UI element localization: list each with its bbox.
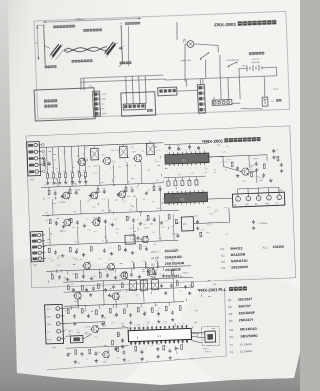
main IC1 MC145163	[128, 328, 191, 341]
svg-text:1: 1	[237, 199, 238, 201]
svg-text:BA4220B: BA4220B	[231, 252, 246, 257]
to receiver label right	[120, 62, 123, 65]
svg-text:0.1: 0.1	[86, 358, 88, 360]
svg-text:0.01: 0.01	[93, 276, 97, 278]
svg-text:2: 2	[57, 316, 58, 318]
svg-text:0.01: 0.01	[191, 173, 194, 175]
svg-text:10uF: 10uF	[179, 257, 183, 259]
antenna input trap	[43, 159, 44, 166]
svg-text:470: 470	[130, 228, 133, 230]
svg-text:L3: L3	[155, 260, 157, 262]
middle section border box	[26, 126, 296, 288]
svg-text:0.01: 0.01	[111, 150, 114, 152]
svg-text:0.022: 0.022	[207, 224, 211, 226]
label core coil left	[53, 25, 56, 28]
svg-text:L3: L3	[159, 273, 161, 275]
svg-text:0.047: 0.047	[100, 182, 104, 184]
svg-text:14: 14	[178, 323, 180, 325]
svg-text:0.047: 0.047	[161, 226, 165, 228]
wires into PLL box	[80, 78, 83, 90]
label matching note center	[83, 29, 86, 32]
svg-text:2SC2347: 2SC2347	[238, 297, 252, 302]
upper passive row	[67, 285, 69, 290]
squelch transistor Q4	[242, 168, 249, 175]
wires right	[209, 156, 223, 167]
svg-text:560: 560	[49, 178, 52, 180]
svg-text:L1: L1	[131, 261, 133, 263]
svg-text:0.047: 0.047	[93, 172, 97, 174]
svg-text:560: 560	[163, 202, 166, 204]
extra wires right cluster	[238, 73, 241, 99]
svg-text:100: 100	[155, 305, 158, 307]
input connector CN1 left top	[27, 141, 41, 175]
top section border box	[34, 11, 290, 119]
svg-text:0.022: 0.022	[72, 273, 76, 275]
svg-text:0.01: 0.01	[102, 188, 105, 190]
svg-text:0.1: 0.1	[99, 178, 101, 180]
svg-text:10: 10	[161, 323, 163, 325]
svg-text:100: 100	[178, 174, 181, 176]
svg-text:1uF: 1uF	[43, 154, 46, 156]
svg-text:0.1: 0.1	[80, 259, 82, 261]
VCO transistors above	[74, 292, 81, 299]
svg-text:100: 100	[45, 220, 48, 222]
RX PCB board box	[121, 92, 156, 117]
svg-text:Q4: Q4	[229, 319, 233, 323]
svg-text:12V DC: 12V DC	[252, 59, 260, 61]
svg-text:330: 330	[142, 198, 145, 200]
svg-text:L2: L2	[147, 274, 149, 276]
svg-text:470: 470	[226, 146, 229, 148]
svg-text:47uF: 47uF	[111, 322, 115, 324]
svg-text:470: 470	[168, 257, 171, 259]
second feeder vertical	[127, 26, 130, 66]
lamp wires	[185, 43, 187, 45]
svg-text:GND: GND	[47, 324, 52, 326]
svg-text:0.022: 0.022	[221, 161, 225, 163]
VCO bottom dense row	[51, 275, 53, 280]
svg-text:0.01uF: 0.01uF	[174, 359, 181, 361]
svg-text:0.022: 0.022	[157, 208, 161, 210]
svg-text:0.01: 0.01	[93, 231, 96, 233]
svg-text:680: 680	[54, 197, 57, 199]
svg-text:0.022: 0.022	[201, 229, 205, 231]
PLL connector CN1	[45, 304, 64, 344]
svg-text:0.01: 0.01	[87, 201, 90, 203]
svg-text:470: 470	[113, 177, 116, 179]
svg-text:IC2: IC2	[229, 335, 234, 339]
svg-text:1uF: 1uF	[47, 198, 50, 200]
svg-text:0.047: 0.047	[255, 176, 259, 178]
svg-text:0.022: 0.022	[242, 180, 246, 182]
svg-text:FRX-2001: FRX-2001	[214, 22, 236, 29]
svg-text:0.1: 0.1	[126, 304, 128, 306]
svg-text:330: 330	[204, 172, 207, 174]
svg-text:470: 470	[224, 207, 227, 209]
svg-text:47uF: 47uF	[46, 242, 50, 244]
svg-text:0.047: 0.047	[88, 198, 92, 200]
svg-text:1uF: 1uF	[54, 221, 57, 223]
svg-text:1: 1	[57, 308, 58, 310]
svg-text:330: 330	[105, 353, 108, 355]
svg-text:0.01: 0.01	[63, 151, 66, 153]
row4 components (audio)	[48, 248, 50, 253]
svg-text:100: 100	[117, 358, 120, 360]
svg-text:0.01: 0.01	[53, 190, 56, 192]
svg-text:2SK192AGR: 2SK192AGR	[165, 261, 185, 266]
svg-text:10uF: 10uF	[92, 206, 96, 208]
svg-text:15: 15	[183, 323, 185, 325]
below-IC passives	[156, 347, 159, 351]
svg-text:+ 0.0068uF: + 0.0068uF	[258, 223, 269, 225]
crystal X1	[70, 336, 83, 343]
svg-text:220: 220	[116, 229, 119, 231]
svg-text:0.01: 0.01	[185, 159, 188, 161]
svg-text:SB1250HG: SB1250HG	[240, 334, 258, 339]
right antenna post	[121, 25, 122, 63]
svg-text:0.01: 0.01	[64, 310, 67, 312]
0.0068uF cap note	[252, 220, 255, 224]
svg-text:0.01: 0.01	[88, 230, 91, 232]
svg-text:47uF: 47uF	[70, 331, 74, 333]
svg-text:GND: GND	[102, 113, 107, 115]
svg-text:0.022: 0.022	[113, 218, 117, 220]
caps above IC1	[168, 146, 171, 150]
svg-text:Q2: Q2	[228, 305, 232, 309]
svg-text:100: 100	[225, 170, 228, 172]
svg-text:10uF: 10uF	[110, 167, 114, 169]
svg-text:470: 470	[156, 180, 159, 182]
detector box + transistor above parts list	[125, 235, 135, 244]
svg-text:1000P: 1000P	[93, 166, 98, 168]
svg-text:13: 13	[174, 323, 176, 325]
svg-text:1uF: 1uF	[51, 260, 54, 262]
svg-text:Q3: Q3	[228, 312, 232, 316]
svg-text:1uF: 1uF	[214, 169, 217, 171]
channel switch	[205, 331, 216, 342]
top resistor row with drops	[46, 147, 47, 173]
CN2 output connector	[232, 192, 284, 207]
svg-text:0.1: 0.1	[137, 219, 139, 221]
circled pin digits next to CN1	[42, 144, 45, 147]
svg-text:1S2208: 1S2208	[272, 245, 284, 249]
left antenna coil	[50, 44, 61, 57]
svg-text:10uF: 10uF	[93, 217, 97, 219]
svg-text:560: 560	[110, 269, 113, 271]
svg-text:MC145163: MC145163	[240, 327, 257, 332]
svg-text:10uF: 10uF	[208, 222, 212, 224]
mid band components row2	[48, 190, 50, 195]
svg-text:5: 5	[278, 197, 279, 199]
svg-text:1uF: 1uF	[158, 186, 161, 188]
svg-text:100: 100	[91, 195, 94, 197]
svg-text:Q1: Q1	[228, 298, 232, 302]
svg-text:0.1: 0.1	[130, 204, 132, 206]
battery cells	[243, 65, 266, 72]
svg-text:0.1: 0.1	[159, 251, 161, 253]
battery label 単2電池×8	[249, 52, 252, 55]
VCO coil cans	[129, 280, 136, 290]
svg-text:Q1,5,7: Q1,5,7	[150, 250, 158, 253]
svg-text:GND: GND	[265, 203, 270, 205]
switch drop wire	[205, 59, 206, 78]
PLL section border	[44, 290, 228, 370]
lamp	[187, 40, 194, 47]
svg-text:330: 330	[147, 190, 150, 192]
svg-text:0.1: 0.1	[179, 291, 181, 293]
wires right area	[199, 79, 201, 85]
svg-text:0.1: 0.1	[276, 149, 279, 151]
svg-text:0.1: 0.1	[102, 328, 104, 330]
svg-text:0.047: 0.047	[143, 246, 147, 248]
svg-text:100P: 100P	[217, 145, 221, 147]
svg-text:10.24MHz: 10.24MHz	[240, 349, 253, 353]
svg-text:BA4112: BA4112	[230, 246, 242, 250]
svg-text:*FRX-2001: *FRX-2001	[202, 138, 224, 144]
svg-text:0.01: 0.01	[137, 324, 141, 326]
svg-text:43.10MHz: 43.10MHz	[240, 342, 253, 346]
svg-text:1.5M: 1.5M	[245, 204, 250, 206]
svg-text:100: 100	[153, 244, 156, 246]
svg-text:560: 560	[74, 241, 77, 243]
Q3	[92, 326, 99, 333]
svg-text:3SK73Y: 3SK73Y	[238, 304, 252, 309]
svg-text:2SC2803F: 2SC2803F	[238, 311, 254, 316]
svg-text:0.022: 0.022	[251, 165, 255, 167]
svg-text:100P: 100P	[73, 258, 77, 260]
svg-text:100: 100	[149, 309, 152, 311]
svg-text:680: 680	[152, 201, 155, 203]
connector row D	[212, 99, 232, 105]
svg-text:5: 5	[58, 339, 59, 341]
svg-text:+12V: +12V	[101, 94, 106, 96]
svg-text:100: 100	[168, 265, 171, 267]
to receiver label left	[45, 66, 48, 69]
svg-text:0.1: 0.1	[106, 263, 108, 265]
svg-text:3: 3	[258, 198, 259, 200]
soft photo shading	[0, 255, 150, 391]
svg-text:0.022: 0.022	[209, 213, 213, 215]
lamp switch	[200, 53, 208, 58]
micro tick texture	[97, 203, 99, 205]
svg-text:0.01: 0.01	[91, 287, 94, 289]
svg-text:0.1: 0.1	[226, 162, 228, 164]
svg-text:0.1: 0.1	[107, 349, 109, 351]
svg-text:LAMP SW: LAMP SW	[181, 59, 192, 62]
svg-text:100P: 100P	[127, 196, 131, 198]
svg-text:560: 560	[147, 170, 150, 172]
IC2 BA4220 DIP	[164, 192, 207, 203]
svg-text:4.5-4 x: 4.5-4 x	[203, 348, 209, 350]
dimension arrow 50mm	[37, 26, 38, 60]
svg-text:100: 100	[250, 169, 253, 171]
svg-text:0.01uF: 0.01uF	[85, 326, 92, 328]
svg-text:0.01: 0.01	[215, 210, 218, 212]
svg-text:11: 11	[165, 323, 167, 325]
second RX connector row	[158, 87, 177, 96]
svg-text:100: 100	[76, 329, 79, 331]
svg-text:0.01: 0.01	[72, 227, 75, 229]
svg-text:100: 100	[60, 230, 63, 232]
left-of-IC column	[117, 332, 119, 337]
mid passive rows	[67, 309, 69, 314]
svg-text:100: 100	[115, 315, 118, 317]
svg-text:SB1250HG: SB1250HG	[231, 265, 248, 270]
svg-text:3: 3	[57, 324, 58, 326]
svg-text:4: 4	[58, 331, 59, 333]
IF transformer cans	[91, 148, 99, 160]
svg-text:2SC2803F: 2SC2803F	[165, 268, 181, 273]
svg-text:470: 470	[117, 196, 120, 198]
IC3 NJM4151	[181, 217, 194, 231]
svg-text:100uF: 100uF	[253, 158, 259, 160]
svg-text:12: 12	[169, 323, 171, 325]
svg-text:0.01: 0.01	[63, 202, 66, 204]
RX connector row	[123, 103, 146, 110]
svg-text:IC1: IC1	[229, 328, 234, 332]
svg-text:L2: L2	[143, 261, 145, 263]
svg-text:0.022: 0.022	[115, 150, 119, 152]
transistors row3	[64, 219, 71, 226]
power switch	[228, 62, 236, 66]
svg-text:0.022: 0.022	[259, 177, 263, 179]
vertical connector column C	[197, 85, 205, 114]
svg-text:GND: GND	[102, 99, 107, 101]
svg-text:0.100K: 0.100K	[172, 233, 179, 235]
svg-text:3 4 - 8: 3 4 - 8	[205, 351, 210, 353]
svg-text:Q4,9: Q4,9	[151, 269, 157, 272]
svg-text:470: 470	[136, 294, 139, 296]
svg-text:100: 100	[71, 283, 74, 285]
svg-text:330: 330	[100, 283, 103, 285]
svg-text:470: 470	[80, 337, 83, 339]
svg-text:0.1: 0.1	[105, 360, 107, 362]
capacitor at right coil	[118, 47, 122, 50]
svg-text:470: 470	[109, 223, 112, 225]
paper bottom edge shade	[0, 352, 300, 391]
svg-text:12V(-): 12V(-)	[273, 89, 279, 91]
svg-text:100: 100	[129, 209, 132, 211]
svg-text:NJM4151D: NJM4151D	[231, 259, 248, 264]
left antenna post	[44, 25, 46, 64]
antenna feed drop wire	[176, 22, 177, 40]
svg-text:1uF: 1uF	[143, 224, 146, 226]
svg-text:1000P: 1000P	[52, 203, 57, 205]
svg-text:47uF: 47uF	[86, 291, 90, 293]
feeder line label	[72, 60, 75, 63]
vertical inter-stage wires	[57, 178, 59, 187]
svg-text:0.022: 0.022	[178, 148, 182, 150]
svg-text:0.01: 0.01	[157, 150, 160, 152]
row3 components	[49, 219, 51, 224]
RF transistors Q1 Q2 Q3	[78, 158, 85, 165]
svg-text:L1: L1	[123, 275, 125, 277]
IC1 BA4112 DIP	[165, 153, 209, 164]
wires into RX box	[126, 77, 127, 104]
svg-text:100: 100	[98, 352, 101, 354]
right antenna coil	[104, 42, 115, 55]
DC jack	[262, 97, 268, 106]
wires	[62, 299, 78, 308]
svg-text:2: 2	[248, 198, 249, 200]
PLL connector column CN	[93, 91, 101, 116]
dimension arrow 700mm	[43, 18, 141, 22]
svg-text:4: 4	[268, 198, 269, 200]
svg-text:0.01: 0.01	[130, 187, 133, 189]
svg-text:700mm: 700mm	[76, 17, 85, 21]
svg-text:1uF: 1uF	[156, 310, 159, 312]
top bus wires	[39, 143, 163, 148]
volume connector CN3 left bottom	[30, 231, 44, 261]
svg-text:SW: SW	[242, 65, 245, 67]
svg-text:X1,2: X1,2	[262, 246, 268, 249]
svg-text:1uF: 1uF	[144, 312, 147, 314]
capacitor at left coil	[63, 49, 67, 52]
PLL PCB board box	[34, 88, 95, 121]
passives around IC3	[175, 219, 177, 224]
svg-text:1000P: 1000P	[183, 272, 189, 274]
svg-text:GND: GND	[47, 316, 52, 318]
transistors row2	[63, 192, 70, 199]
twisted feeder line	[66, 47, 107, 53]
svg-text:680: 680	[78, 189, 81, 191]
right-area passives	[255, 162, 258, 166]
svg-text:100P: 100P	[130, 236, 134, 238]
svg-text:0.01: 0.01	[73, 211, 76, 213]
ceramic filters above IC2	[167, 181, 170, 186]
svg-text:10uF: 10uF	[53, 159, 57, 161]
svg-text:2SK241Y: 2SK241Y	[239, 318, 254, 323]
channel switch outer dashed box	[202, 326, 220, 346]
svg-text:0.1uF: 0.1uF	[130, 239, 134, 241]
svg-text:470: 470	[56, 168, 59, 170]
svg-text:0.1: 0.1	[52, 167, 54, 169]
main bus wire	[165, 76, 277, 80]
svg-text:(100mA): (100mA)	[251, 61, 260, 64]
svg-text:10uF: 10uF	[158, 238, 162, 240]
